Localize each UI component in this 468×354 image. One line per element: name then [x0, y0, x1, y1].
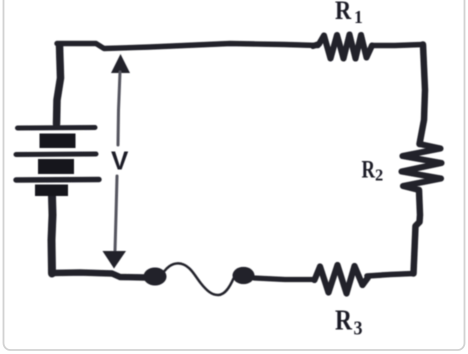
switch left terminal blob	[144, 268, 167, 286]
battery B: bottom plate (thin long)	[16, 177, 99, 183]
wire: switch to bottom-left corner	[52, 273, 145, 278]
resistor R2	[402, 144, 442, 190]
resistor R3	[315, 265, 369, 294]
voltage arrow: lower shaft	[115, 176, 117, 251]
battery B: middle plate (thin long)	[16, 152, 96, 158]
svg-text:R: R	[362, 157, 376, 184]
wire: left vertical from bottom corner up to battery	[52, 196, 53, 274]
switch squiggle wire	[165, 263, 234, 295]
wire: top right from R1 to top-right corner	[372, 45, 423, 46]
wire: right vertical lower, R2 to bottom-right corner	[414, 190, 421, 274]
label R3	[335, 305, 363, 340]
wire: top horizontal from top-left corner to R1	[57, 44, 318, 49]
svg-text:1: 1	[354, 7, 363, 27]
wire: R3 to switch right blob	[254, 278, 315, 280]
wire: bottom from corner to R3	[367, 274, 414, 277]
voltage arrow: upper shaft	[118, 72, 120, 145]
svg-text:V: V	[111, 146, 129, 176]
voltage arrow: bottom arrowhead	[103, 251, 127, 269]
svg-text:R: R	[335, 0, 352, 25]
svg-text:2: 2	[375, 166, 383, 185]
wire: right vertical upper, corner to R2	[420, 45, 426, 145]
voltage arrow: top arrowhead	[111, 54, 130, 73]
battery B: cell block 1	[40, 134, 76, 149]
resistor R1	[313, 35, 372, 59]
label R1	[335, 0, 363, 27]
label V	[111, 146, 129, 176]
battery B: cell block 2	[38, 159, 74, 174]
battery B: top plate (thin long)	[18, 125, 96, 131]
wire: left vertical from top-left corner down to battery	[57, 45, 61, 124]
switch right terminal blob	[233, 267, 255, 284]
svg-text:3: 3	[354, 318, 363, 340]
battery B: bottom terminal block	[35, 185, 68, 197]
svg-text:R: R	[335, 305, 353, 337]
label R2	[362, 157, 384, 185]
